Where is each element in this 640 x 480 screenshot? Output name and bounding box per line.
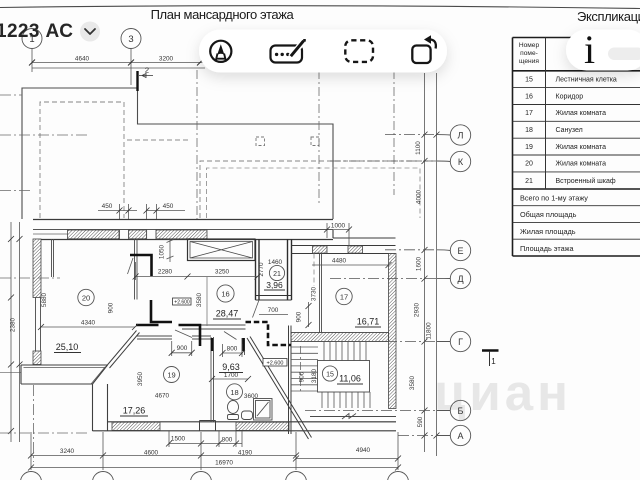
svg-text:Г: Г <box>458 337 463 347</box>
pier bottom-left <box>93 384 108 431</box>
svg-text:1600: 1600 <box>416 256 423 271</box>
svg-text:Встроенный шкаф: Встроенный шкаф <box>556 177 616 185</box>
svg-text:Жилая площадь: Жилая площадь <box>520 227 576 236</box>
roof axis dashdot vertical x394 <box>393 70 395 195</box>
corridor bottom wall A <box>182 325 246 329</box>
bottom wall band bottom line <box>93 430 397 432</box>
svg-text:4480: 4480 <box>332 258 347 265</box>
dim 450 left <box>98 203 137 219</box>
svg-text:А: А <box>457 431 463 441</box>
svg-text:3,96: 3,96 <box>266 280 283 290</box>
svg-text:Жилая комната: Жилая комната <box>556 110 607 117</box>
svg-text:i: i <box>584 27 595 72</box>
svg-text:16: 16 <box>525 94 533 101</box>
svg-text:16,71: 16,71 <box>357 317 380 327</box>
room circle 21 <box>269 265 284 280</box>
svg-text:3240: 3240 <box>60 448 75 455</box>
bottom door ticks <box>166 441 239 447</box>
left outer wall hatch upper <box>33 239 41 298</box>
right wing band top line <box>333 230 396 238</box>
bold jamb sanuzel right <box>242 338 244 351</box>
svg-text:4940: 4940 <box>356 447 371 454</box>
svg-text:900: 900 <box>299 371 306 382</box>
top wall band inner top line <box>33 229 333 231</box>
svg-text:1700: 1700 <box>224 372 239 379</box>
svg-text:16: 16 <box>221 290 229 299</box>
header Номер помещения <box>519 42 540 65</box>
svg-text:900: 900 <box>108 302 115 313</box>
wardrobe box <box>188 239 256 261</box>
svg-text:800: 800 <box>222 437 233 444</box>
axis G line <box>310 341 437 343</box>
door leaf closet <box>253 300 260 318</box>
svg-text:11800: 11800 <box>426 322 433 340</box>
svg-text:5880: 5880 <box>41 292 48 307</box>
svg-text:1100: 1100 <box>415 141 422 155</box>
landing break mark <box>342 414 356 420</box>
svg-text:циан: циан <box>434 364 572 421</box>
svg-text:Общая площадь: Общая площадь <box>520 210 577 219</box>
svg-text:К: К <box>458 157 464 167</box>
svg-text:Лестничная клетка: Лестничная клетка <box>556 77 617 84</box>
svg-text:19: 19 <box>167 371 175 380</box>
room area 28,47 <box>213 309 241 320</box>
svg-text:17: 17 <box>525 110 533 117</box>
door leaf sanuzel <box>224 332 237 340</box>
row numbers <box>525 77 533 186</box>
svg-text:1000: 1000 <box>331 223 346 230</box>
sanuzel left wall <box>211 337 214 422</box>
terrace outline <box>21 365 108 384</box>
icon rotate <box>412 35 436 63</box>
rooms19 top wall B <box>137 336 211 339</box>
left dim ticks <box>8 236 23 434</box>
right chain ticks <box>422 132 440 439</box>
bottom main ticks <box>28 453 299 459</box>
svg-text:17,26: 17,26 <box>123 406 146 416</box>
total dim line 16970 <box>31 467 398 469</box>
svg-text:450: 450 <box>102 203 113 210</box>
roof axis dashdot vertical x197 <box>196 70 198 219</box>
svg-text:800: 800 <box>227 346 238 353</box>
right wing hatch 2 <box>348 246 363 253</box>
stair diagonal underside <box>247 337 312 440</box>
dim 1700 <box>209 372 251 382</box>
right wing band lines <box>292 246 396 254</box>
dim vertical x309 <box>306 302 312 328</box>
axis leaders right <box>437 135 450 436</box>
axis circle 3 top <box>121 29 141 49</box>
svg-text:21: 21 <box>273 271 281 278</box>
top dim ticks <box>29 60 203 66</box>
axis circle K <box>450 151 470 171</box>
bottom axis circle 4 <box>286 472 307 480</box>
top wall hatch segment 2 <box>129 230 147 239</box>
dim 800 door18 <box>220 344 246 357</box>
dim 450 right <box>144 203 186 219</box>
dim line 4940 <box>296 458 398 460</box>
table outer borders <box>513 38 640 257</box>
svg-text:700: 700 <box>268 307 279 314</box>
svg-text:15: 15 <box>326 372 334 379</box>
dim 1000 wing <box>324 223 352 246</box>
bottom axis circle 5 <box>388 472 409 480</box>
room area 3,96 <box>264 280 285 290</box>
section mark 1 <box>482 351 499 367</box>
left outer wall hatch lower <box>33 351 41 365</box>
flag axis 2 <box>138 66 154 92</box>
svg-text:2930: 2930 <box>414 302 421 317</box>
svg-text:Коридор: Коридор <box>556 94 584 101</box>
elevation tag +2.600 a <box>173 298 192 306</box>
svg-text:1500: 1500 <box>171 436 186 443</box>
bottom wall hatch 2 <box>236 422 289 430</box>
bold stair opening U <box>246 322 292 345</box>
interior wall x52 <box>52 239 54 277</box>
svg-text:4340: 4340 <box>81 320 96 327</box>
svg-text:590: 590 <box>417 416 424 427</box>
room circle 20 <box>78 289 94 305</box>
roof step line to right wing <box>138 91 334 219</box>
bottom pier white <box>200 421 216 431</box>
shower box <box>254 399 273 421</box>
svg-text:17: 17 <box>340 293 348 302</box>
room area 16,71 <box>355 317 381 328</box>
axis circle L <box>450 125 470 145</box>
svg-text:4190: 4190 <box>238 450 253 457</box>
door leaf room20 <box>128 258 134 274</box>
stair label box <box>318 361 370 393</box>
roof dashed inner line <box>127 139 190 141</box>
room17 roof dashed <box>313 254 315 287</box>
wardrobe inner rect with X <box>190 242 253 259</box>
axis circle E <box>450 240 470 260</box>
svg-text:Е: Е <box>457 246 463 256</box>
svg-text:20: 20 <box>525 161 533 168</box>
bold jamb sanuzel left <box>211 338 213 351</box>
interior wall x135 room20/corridor <box>135 239 138 300</box>
svg-text:3200: 3200 <box>159 56 174 63</box>
right wing hatch 1 <box>313 246 328 253</box>
room area 17,26 <box>120 406 148 417</box>
svg-text:3600: 3600 <box>244 393 259 400</box>
svg-text:3250: 3250 <box>215 269 230 276</box>
svg-text:1223 АС: 1223 АС <box>0 21 73 42</box>
closet21 left wall <box>256 239 260 300</box>
axis dashdot left 190 <box>0 190 33 192</box>
svg-text:18: 18 <box>525 127 533 134</box>
window jamb ticks top band <box>120 230 157 239</box>
dim 4480 <box>312 258 392 269</box>
svg-text:18: 18 <box>230 388 238 397</box>
bottom wall band top line <box>108 421 397 423</box>
room circle 17 <box>336 288 352 304</box>
closet21 right wall <box>288 239 292 300</box>
svg-text:1050: 1050 <box>159 244 166 259</box>
svg-text:Жилая комната: Жилая комната <box>556 161 607 168</box>
svg-text:Жилая комната: Жилая комната <box>556 144 607 151</box>
roof outline top-left block <box>22 88 138 219</box>
svg-text:щения: щения <box>519 58 539 65</box>
axis K line <box>330 160 437 162</box>
stair treads west column <box>291 347 318 391</box>
axis dashdot horizontal M <box>0 94 22 96</box>
room area 9,63 <box>219 362 243 373</box>
4940 ticks <box>293 456 401 462</box>
svg-text:План мансардного этажа: План мансардного этажа <box>151 7 295 22</box>
roof dashed rect right wing <box>200 161 433 218</box>
chimney dashed square 1 <box>256 137 265 146</box>
door leaf room19 <box>175 330 192 338</box>
svg-text:9,63: 9,63 <box>222 362 240 372</box>
svg-text:Л: Л <box>458 131 464 141</box>
svg-text:4000: 4000 <box>416 189 423 204</box>
axis circle A <box>450 425 470 445</box>
dim 4340 <box>38 320 138 331</box>
axis circle B <box>450 400 470 420</box>
roof dashed inner wing <box>207 168 421 218</box>
svg-text:28,47: 28,47 <box>216 309 239 319</box>
svg-text:4640: 4640 <box>75 56 90 63</box>
toolbar pill center <box>199 30 447 73</box>
svg-text:+2.600: +2.600 <box>267 361 284 367</box>
room circle 19 <box>164 367 180 383</box>
toolbar pill right <box>566 30 640 71</box>
chimney dashed square 2 <box>311 137 319 146</box>
axis E line <box>385 249 437 251</box>
svg-text:1: 1 <box>491 357 496 366</box>
axis circle D <box>450 268 470 288</box>
svg-text:Всего по 1-му этажу: Всего по 1-му этажу <box>520 194 588 203</box>
stair walk line <box>300 346 302 392</box>
toilet <box>228 401 239 420</box>
svg-text:3950: 3950 <box>137 371 144 386</box>
room area 11,06 <box>337 374 363 385</box>
svg-text:поме-: поме- <box>520 50 538 57</box>
svg-text:Д: Д <box>457 274 463 284</box>
elevation tag +2.600 b <box>263 359 287 367</box>
svg-text:20: 20 <box>82 294 90 303</box>
svg-text:Номер: Номер <box>519 42 540 49</box>
axis dashdot horizontal L-left <box>0 134 88 136</box>
window line left segment <box>33 233 68 235</box>
stair treads lower flight <box>322 392 370 408</box>
svg-text:25,10: 25,10 <box>56 342 79 352</box>
axis dashdot left A <box>0 432 90 434</box>
axis circle G <box>450 331 470 351</box>
closet21 bottom wall <box>256 296 292 301</box>
svg-text:1460: 1460 <box>268 259 283 266</box>
stair landing lines bottom <box>290 417 396 422</box>
sanuzel inner wall <box>242 338 245 355</box>
axis dashdot left 278 <box>0 277 60 279</box>
roof axis dashdot vertical x319 <box>318 70 320 206</box>
bottom axis circle 2 <box>93 472 114 480</box>
row names <box>556 77 617 186</box>
top dim line <box>32 49 205 85</box>
sink <box>242 411 253 420</box>
svg-text:4600: 4600 <box>144 450 159 457</box>
stairwell west wall <box>289 326 292 435</box>
dim 1050 <box>159 239 174 262</box>
svg-text:900: 900 <box>296 311 303 322</box>
dim 700 closet <box>259 307 288 315</box>
svg-text:15: 15 <box>525 77 533 84</box>
axis L line <box>385 134 437 136</box>
icon dashed rect <box>345 40 373 62</box>
svg-text:2380: 2380 <box>10 317 17 332</box>
right outer wall hatched <box>389 254 397 409</box>
bottom axis circle 3 <box>191 472 212 480</box>
svg-text:3730: 3730 <box>311 286 318 301</box>
svg-text:4670: 4670 <box>155 393 170 400</box>
svg-text:3580: 3580 <box>409 375 416 390</box>
svg-text:Площадь этажа: Площадь этажа <box>520 244 575 253</box>
dim line 2280 3250 <box>133 262 261 280</box>
terrace inner line <box>24 367 106 385</box>
summary rows <box>520 194 588 253</box>
svg-text:3180: 3180 <box>311 368 318 383</box>
stair top wall hatched band <box>291 333 389 342</box>
bold door jamb corridor right <box>179 325 201 346</box>
bold segment wall B <box>136 324 159 327</box>
top wall band outer line <box>33 219 333 221</box>
icon edit <box>271 39 306 63</box>
svg-text:Экспликация: Экспликация <box>577 9 640 24</box>
bold door jamb L corridor left <box>151 300 172 322</box>
left dim verticals <box>11 222 20 442</box>
svg-text:19: 19 <box>525 144 533 151</box>
svg-text:450: 450 <box>163 203 174 210</box>
axis circle 1 top <box>22 29 42 49</box>
axis dashdot vertical 1 <box>33 385 35 462</box>
top wall band bottom line <box>33 239 333 241</box>
top wall hatch segment 3 <box>156 230 207 239</box>
grey placeholder <box>608 48 640 61</box>
svg-text:21: 21 <box>525 178 533 185</box>
bottom axis circle 1 <box>21 472 42 480</box>
svg-text:3: 3 <box>128 34 133 45</box>
bottom dim line doors <box>169 443 242 445</box>
room circle 16 <box>217 285 234 302</box>
axis A line <box>398 435 437 437</box>
icon compass <box>210 41 231 62</box>
bottom wall hatch 1 <box>112 422 160 430</box>
total ticks <box>28 465 401 471</box>
bottom dim line main <box>31 455 296 457</box>
axis D line <box>330 278 437 280</box>
svg-text:16970: 16970 <box>215 460 233 467</box>
svg-text:2770: 2770 <box>258 262 265 277</box>
left outer wall double line <box>36 298 41 352</box>
axis B line <box>305 410 437 412</box>
extension line x207 <box>206 277 208 326</box>
stair treads upper flight <box>324 342 366 361</box>
svg-text:+2.600: +2.600 <box>174 300 190 306</box>
room17 left wall <box>320 254 322 334</box>
room circle 18 <box>227 384 243 400</box>
table column divider <box>545 38 547 190</box>
right dim chain line inner <box>425 73 437 456</box>
svg-text:Б: Б <box>458 406 464 416</box>
sheet top line <box>0 6 640 9</box>
dim 900 door19 <box>169 341 195 356</box>
svg-text:2280: 2280 <box>158 269 173 276</box>
slanted wall room19 <box>107 331 140 369</box>
chevron button <box>80 22 100 42</box>
room area 25,10 <box>54 342 81 353</box>
svg-text:900: 900 <box>177 345 188 352</box>
bold door jamb L room20 <box>130 255 152 276</box>
table row lines <box>513 88 640 240</box>
svg-text:Санузел: Санузел <box>556 127 583 134</box>
svg-text:2: 2 <box>145 66 149 75</box>
bottom extension verticals <box>31 431 398 470</box>
roof dashed rect left <box>40 102 124 218</box>
svg-text:11,06: 11,06 <box>339 374 361 384</box>
room circle 15 <box>322 366 337 381</box>
svg-text:3580: 3580 <box>196 292 203 307</box>
top wall hatch segment 1 <box>68 230 120 239</box>
terrace extension line left <box>0 372 21 374</box>
